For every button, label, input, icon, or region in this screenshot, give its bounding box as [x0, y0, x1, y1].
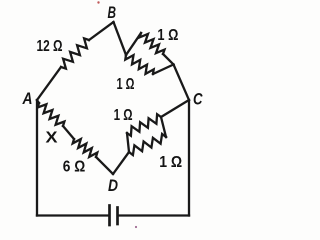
wire left side DC pair	[127, 133, 129, 152]
wire left branch split BC top	[126, 33, 141, 55]
wire BC bottom branch to right junction	[153, 65, 174, 75]
resistor 1 ohm (D-C bottom branch)	[129, 134, 166, 155]
svg-text:1 Ω: 1 Ω	[114, 107, 133, 124]
battery cell right plate	[116, 208, 119, 225]
wire BC top branch to right junction	[163, 54, 174, 65]
speckle bottom	[135, 226, 137, 228]
battery cell left plate	[108, 206, 111, 226]
svg-text:A: A	[22, 89, 33, 108]
wire X to 6-ohm	[63, 126, 74, 139]
resistor X (A-D arm upper)	[38, 103, 65, 126]
svg-text:1 Ω: 1 Ω	[117, 76, 135, 93]
wire A to 12-ohm resistor	[37, 67, 61, 100]
resistor 1 ohm (D-C top branch)	[127, 114, 161, 136]
wire left vertical A down	[36, 100, 38, 216]
svg-text:12 Ω: 12 Ω	[37, 38, 63, 55]
wire D to parallel pair DC	[113, 152, 129, 174]
wire right side DC pair	[161, 117, 166, 137]
wire battery to bottom right	[119, 214, 190, 216]
svg-text:6 Ω: 6 Ω	[63, 159, 86, 176]
svg-text:X: X	[46, 130, 59, 147]
wire right vertical C down	[188, 100, 190, 216]
svg-text:D: D	[108, 176, 118, 195]
wire DC pair to C	[161, 100, 189, 117]
svg-text:1 Ω: 1 Ω	[159, 154, 182, 171]
resistor 6 ohm (A-D arm lower)	[73, 139, 98, 157]
wire BC right junction to C	[174, 65, 190, 101]
wire 6-ohm to D	[96, 157, 113, 174]
resistor 1 ohm (B-C bottom branch)	[125, 55, 153, 74]
svg-text:C: C	[193, 90, 203, 109]
node A junction stub	[37, 100, 39, 103]
wire B to parallel pair BC	[114, 22, 127, 55]
wire bottom left to battery	[37, 214, 109, 216]
speckle top	[97, 1, 99, 3]
resistor 1 ohm (B-C top branch)	[140, 33, 165, 54]
wire 12-ohm to B	[89, 22, 114, 40]
svg-text:B: B	[108, 3, 117, 22]
svg-text:1 Ω: 1 Ω	[157, 27, 178, 44]
resistor R 12 ohm (A-B arm)	[61, 38, 89, 68]
